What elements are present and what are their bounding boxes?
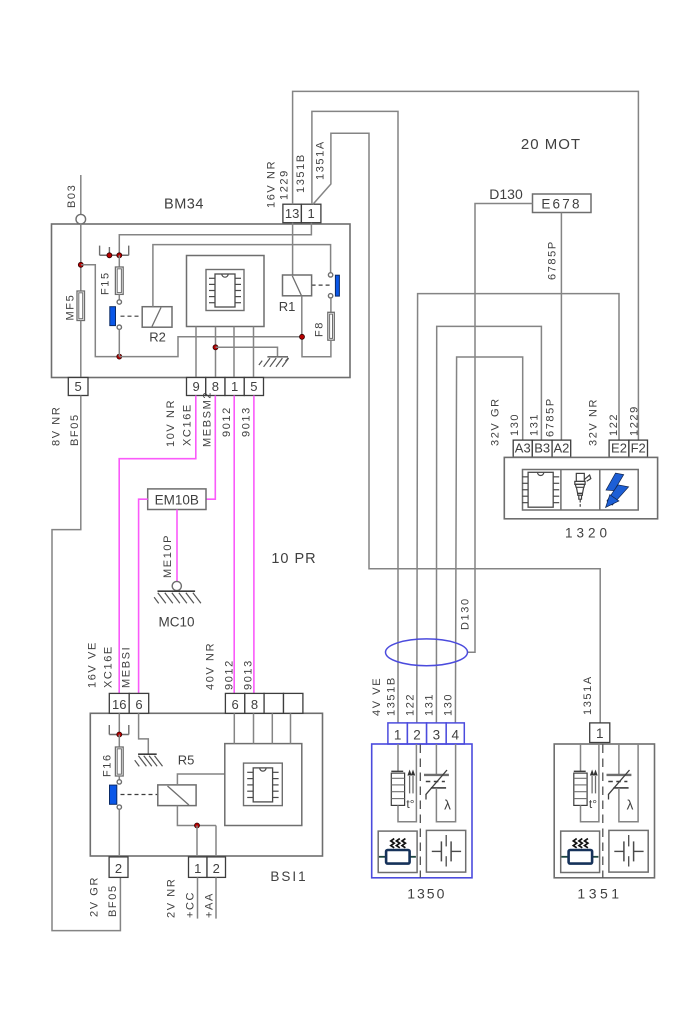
svg-text:1229: 1229 bbox=[278, 169, 290, 200]
wire MEBSM2 pink bbox=[206, 396, 215, 500]
connector pin 2 bottom BSI bbox=[109, 857, 128, 878]
connector pins 1 2 bottom BSI bbox=[189, 857, 208, 878]
svg-text:32V NR: 32V NR bbox=[587, 398, 599, 446]
svg-text:B3: B3 bbox=[534, 441, 550, 456]
wire R2 coil to switch contact bbox=[153, 245, 331, 307]
svg-text:EM10B: EM10B bbox=[155, 492, 199, 507]
dashed actuator link R1 bbox=[312, 284, 332, 286]
capacitor box bbox=[609, 830, 648, 872]
svg-text:9012: 9012 bbox=[223, 659, 235, 690]
wire BSI top cell 6 bbox=[233, 713, 235, 743]
svg-text:40V NR: 40V NR bbox=[204, 642, 216, 690]
symbol cells 1320 bbox=[523, 470, 639, 511]
wire contact to pin2 bbox=[118, 809, 120, 857]
splice oval harness bbox=[386, 639, 468, 666]
svg-text:10V NR: 10V NR bbox=[165, 399, 177, 447]
svg-text:131: 131 bbox=[423, 693, 435, 716]
wire 122 from 1320 E2 bbox=[417, 294, 619, 723]
svg-text:8: 8 bbox=[251, 697, 258, 712]
wire 1351A from pin 1 bbox=[313, 133, 600, 723]
svg-text:4V VE: 4V VE bbox=[371, 677, 383, 716]
relay R1 bbox=[283, 275, 312, 296]
connector E2 F2 of 1320 bbox=[609, 440, 629, 457]
svg-text:4: 4 bbox=[451, 728, 459, 743]
svg-text:E678: E678 bbox=[541, 196, 581, 211]
svg-text:1351A: 1351A bbox=[314, 140, 326, 180]
wire heater feed bbox=[580, 744, 582, 771]
capacitor element bbox=[432, 850, 442, 852]
wire pin16 to link bbox=[118, 713, 120, 734]
dashed actuator link R5 bbox=[121, 794, 158, 796]
relay R5 bbox=[158, 785, 196, 806]
svg-text:9013: 9013 bbox=[241, 406, 253, 437]
svg-text:MC10: MC10 bbox=[158, 615, 194, 630]
heated resistor box bbox=[561, 831, 600, 872]
capacitor box bbox=[426, 830, 465, 872]
wire 1351B from pin 1 bbox=[312, 111, 398, 723]
case dashed line bbox=[419, 745, 421, 878]
svg-text:t°: t° bbox=[406, 797, 414, 811]
ground symbol MC10 bbox=[158, 590, 196, 592]
svg-text:6785P: 6785P bbox=[546, 240, 558, 280]
switch contact bottom F15 bbox=[117, 325, 121, 329]
svg-text:20 MOT: 20 MOT bbox=[521, 136, 581, 153]
svg-text:122: 122 bbox=[608, 413, 620, 436]
wire pin6 to ground BSI bbox=[139, 713, 149, 754]
svg-text:+CC: +CC bbox=[184, 891, 196, 918]
svg-text:B03: B03 bbox=[66, 184, 78, 208]
IC chip BSI bbox=[253, 768, 272, 802]
wire 131 from 1320 B3 bbox=[436, 326, 541, 723]
wire BSI top cell 8 bbox=[253, 713, 255, 743]
connector 1 2 3 4 of 1350 bbox=[388, 723, 464, 744]
wire BSI top cell 4 bbox=[290, 713, 292, 743]
wire pin 13 to relay R1 bbox=[292, 223, 294, 275]
terminal link F16 bbox=[109, 734, 129, 736]
wire MEBSI pink from EM10B bbox=[139, 499, 148, 693]
junction dot link F16 bbox=[117, 732, 122, 737]
svg-text:131: 131 bbox=[528, 413, 540, 436]
wire B03 feed inside BM34 bbox=[80, 224, 82, 291]
svg-text:F2: F2 bbox=[631, 441, 646, 456]
wire pin 1 to F15 link bbox=[119, 223, 311, 256]
resistor element bbox=[379, 856, 386, 858]
injection ECU box 1320 bbox=[504, 457, 657, 518]
wire contact to fuse F8 bbox=[330, 298, 332, 312]
svg-text:1229: 1229 bbox=[628, 405, 640, 436]
svg-text:6785P: 6785P bbox=[544, 397, 556, 437]
logic unit of BSI bbox=[225, 744, 302, 826]
resistor element bbox=[561, 856, 568, 858]
svg-text:2: 2 bbox=[413, 728, 421, 743]
injector symbol bbox=[575, 473, 591, 506]
junction dot on B03 wire bbox=[78, 262, 83, 267]
wire 1229 from pin 13 to 1320 F2 bbox=[293, 91, 639, 440]
wire 130 from 1320 A3 bbox=[455, 357, 522, 723]
svg-text:BF05: BF05 bbox=[107, 884, 119, 917]
case dashed line bbox=[602, 745, 604, 878]
body control box BSI1 bbox=[90, 713, 322, 856]
relay box E678 bbox=[533, 194, 592, 213]
svg-text:XC16E: XC16E bbox=[102, 645, 114, 688]
svg-text:+AA: +AA bbox=[203, 892, 215, 918]
connector 6 8 right of BSI bbox=[225, 693, 244, 713]
wire BF05 from BM34 pin5 to BSI pin2 bbox=[52, 396, 120, 931]
svg-text:130: 130 bbox=[509, 413, 521, 436]
wire 6785P bbox=[560, 213, 562, 441]
svg-text:XC16E: XC16E bbox=[182, 403, 194, 446]
switch contact bottom right bbox=[328, 294, 332, 298]
switch contact top F16 bbox=[117, 780, 121, 784]
svg-text:BSI1: BSI1 bbox=[270, 869, 307, 884]
svg-text:1350: 1350 bbox=[407, 886, 446, 902]
svg-text:BF05: BF05 bbox=[69, 413, 81, 446]
wire under switch bbox=[119, 337, 302, 357]
ground BM34 internal bbox=[267, 356, 288, 358]
svg-text:122: 122 bbox=[404, 693, 416, 716]
wire +CC bbox=[197, 877, 199, 918]
heat squiggles bbox=[573, 839, 576, 848]
wire link to F16 bbox=[118, 735, 120, 748]
wire R5 coil to logic box bbox=[177, 774, 224, 785]
switch bar right bbox=[335, 275, 339, 296]
lightning bolt symbol bbox=[606, 473, 629, 507]
wire 9013 pink bbox=[253, 396, 255, 694]
IC chip 1320 bbox=[528, 472, 553, 507]
connector pins 9 8 1 5 BM34 bbox=[187, 378, 206, 396]
wire heater return bbox=[581, 744, 599, 822]
junction dot under R1 bbox=[300, 334, 305, 339]
svg-text:λ: λ bbox=[627, 798, 634, 813]
junction dot R5 output bbox=[195, 823, 200, 828]
fuse MF5 bbox=[77, 291, 85, 321]
wire 9012 pink bbox=[233, 396, 235, 694]
wire R1 to junction bbox=[301, 296, 303, 337]
svg-text:MF5: MF5 bbox=[64, 294, 76, 321]
ground BSI internal bbox=[138, 753, 157, 755]
junction dot link left bbox=[107, 253, 112, 258]
svg-text:F8: F8 bbox=[313, 321, 325, 337]
wire to internal ground bbox=[216, 347, 278, 357]
svg-text:1: 1 bbox=[308, 206, 315, 221]
svg-text:F16: F16 bbox=[101, 753, 113, 777]
fuse F8 bbox=[328, 312, 335, 340]
svg-text:2: 2 bbox=[213, 861, 220, 876]
svg-text:9012: 9012 bbox=[221, 406, 233, 437]
wire BSI top cell 3 bbox=[271, 713, 273, 743]
svg-text:3: 3 bbox=[433, 728, 441, 743]
heater arrows bbox=[409, 776, 411, 793]
svg-text:λ: λ bbox=[444, 798, 451, 813]
node B03 wire bbox=[80, 175, 82, 214]
wire lambda return bbox=[619, 744, 638, 822]
svg-text:1: 1 bbox=[231, 379, 238, 394]
wire ME10P pink to ground bbox=[176, 510, 178, 582]
wire +AA bbox=[215, 877, 217, 918]
svg-text:16V NR: 16V NR bbox=[265, 160, 277, 208]
wire pin1 bbox=[233, 327, 235, 378]
switch contact top F15 bbox=[117, 300, 121, 304]
svg-text:1: 1 bbox=[596, 726, 604, 741]
svg-text:R2: R2 bbox=[149, 330, 166, 345]
svg-text:13: 13 bbox=[285, 206, 299, 221]
svg-text:2V GR: 2V GR bbox=[88, 876, 100, 917]
splice box EM10B bbox=[148, 489, 206, 510]
svg-text:BM34: BM34 bbox=[164, 197, 204, 213]
connector pin 5 left BM34 bbox=[68, 378, 88, 396]
wire to pin1 BSI bbox=[196, 826, 198, 857]
heater element bbox=[391, 770, 403, 772]
dashed actuator link to R2 bbox=[121, 315, 143, 317]
svg-text:MEBSI: MEBSI bbox=[120, 646, 132, 688]
oxygen sensor body box bbox=[372, 744, 472, 878]
svg-text:ME10P: ME10P bbox=[162, 534, 174, 578]
svg-text:1351A: 1351A bbox=[582, 675, 594, 715]
connector 13 1 of BM34 bbox=[283, 204, 302, 223]
wire lambda cell bbox=[618, 744, 620, 775]
wire lambda return bbox=[436, 744, 455, 822]
ground eyelet MC10 bbox=[172, 581, 181, 590]
wire MF5 to pin 5 bbox=[80, 321, 82, 378]
wire R5 to pins 1 2 bbox=[177, 806, 216, 826]
svg-text:1351: 1351 bbox=[577, 886, 622, 902]
terminal link above F15 bbox=[100, 254, 129, 256]
svg-text:130: 130 bbox=[442, 693, 454, 716]
svg-text:9013: 9013 bbox=[242, 659, 254, 690]
heater element bbox=[574, 770, 586, 772]
svg-text:1351B: 1351B bbox=[385, 676, 397, 716]
lambda sensing element bbox=[424, 774, 449, 776]
svg-text:8V NR: 8V NR bbox=[50, 406, 62, 446]
wire F8 to junction under R1 bbox=[302, 337, 331, 357]
switch contact top right bbox=[328, 273, 332, 277]
svg-text:E2: E2 bbox=[611, 441, 627, 456]
connector 1 of 1351 bbox=[590, 723, 610, 743]
junction dot link right bbox=[117, 253, 122, 258]
svg-text:1: 1 bbox=[394, 728, 402, 743]
wire XC16E pink bbox=[119, 396, 196, 694]
svg-text:5: 5 bbox=[75, 379, 82, 394]
svg-text:R5: R5 bbox=[178, 753, 195, 768]
svg-text:A3: A3 bbox=[515, 441, 531, 456]
heater arrows bbox=[591, 776, 593, 793]
svg-text:MEBSM2: MEBSM2 bbox=[201, 391, 213, 447]
wire to pin2 BSI bbox=[215, 826, 217, 857]
svg-text:D130: D130 bbox=[489, 186, 523, 202]
connector A3 B3 A2 of 1320 bbox=[513, 440, 532, 457]
svg-text:10 PR: 10 PR bbox=[271, 551, 316, 567]
switch bar F15 bbox=[110, 307, 116, 326]
svg-text:1351B: 1351B bbox=[295, 153, 307, 193]
fuse F16 bbox=[115, 747, 123, 776]
svg-text:R1: R1 bbox=[279, 299, 296, 314]
svg-text:A2: A2 bbox=[553, 441, 569, 456]
switch bar F16 bbox=[110, 785, 117, 804]
wire pin9 bbox=[195, 327, 197, 378]
oxygen sensor body box bbox=[554, 744, 654, 878]
junction dot pin8 wire bbox=[213, 345, 218, 350]
wire pin8 bbox=[215, 327, 217, 378]
wire link to fuse F15 bbox=[118, 255, 120, 267]
svg-text:2V NR: 2V NR bbox=[165, 878, 177, 918]
svg-text:5: 5 bbox=[250, 379, 257, 394]
wire contact to junction bbox=[118, 329, 120, 356]
lambda sensing element bbox=[607, 774, 632, 776]
svg-text:9: 9 bbox=[193, 379, 200, 394]
svg-text:F15: F15 bbox=[99, 271, 111, 295]
wire pin5 ic bbox=[253, 327, 255, 378]
svg-text:6: 6 bbox=[231, 697, 238, 712]
microcontroller unit of BM34 bbox=[187, 256, 265, 327]
capacitor element bbox=[614, 850, 624, 852]
svg-text:t°: t° bbox=[589, 797, 597, 811]
svg-text:1: 1 bbox=[194, 861, 201, 876]
heated resistor box bbox=[378, 831, 417, 872]
ECU box BM34 bbox=[52, 224, 351, 378]
svg-text:6: 6 bbox=[135, 697, 142, 712]
wire F16 to contact bbox=[118, 776, 120, 780]
IC chip BM34 bbox=[215, 274, 235, 307]
fuse F15 bbox=[115, 267, 123, 294]
svg-text:D130: D130 bbox=[459, 597, 471, 630]
switch contact bottom F16 bbox=[117, 805, 121, 809]
bulkhead circle B03 bbox=[76, 214, 86, 224]
svg-text:16: 16 bbox=[112, 697, 126, 712]
connector 16 6 of BSI bbox=[109, 693, 129, 713]
wire F15 to contact bbox=[118, 294, 120, 299]
wire branch to F15 column bbox=[81, 265, 120, 357]
svg-text:16V VE: 16V VE bbox=[86, 641, 98, 688]
junction dot below switch F15 bbox=[117, 354, 122, 359]
wire heater feed bbox=[397, 744, 399, 771]
wire lambda cell bbox=[435, 744, 437, 775]
heat squiggles bbox=[391, 839, 394, 848]
wire D130 to splice oval bbox=[468, 204, 533, 653]
relay R2 bbox=[142, 307, 172, 328]
wire heater return bbox=[398, 744, 416, 822]
svg-text:1320: 1320 bbox=[565, 526, 611, 541]
svg-text:32V GR: 32V GR bbox=[489, 397, 501, 446]
svg-text:2: 2 bbox=[115, 861, 122, 876]
